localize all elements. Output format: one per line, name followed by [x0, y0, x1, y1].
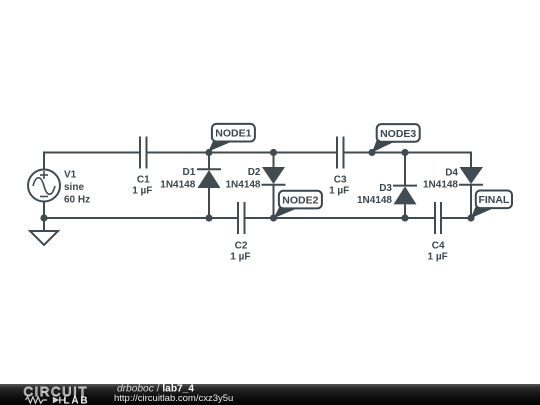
svg-text:1N4148: 1N4148: [160, 179, 195, 190]
junction dot V1/ground: [40, 214, 47, 221]
wire V1 bottom to ground: [43, 202, 45, 232]
junction dot D1 top (NODE1): [205, 149, 212, 156]
svg-text:C4: C4: [432, 240, 445, 251]
svg-text:60 Hz: 60 Hz: [64, 194, 90, 205]
junction dot D2 top: [270, 149, 277, 156]
footer text: author / title: [117, 383, 194, 394]
node FINAL label: [471, 191, 512, 219]
junction dot D3 bottom: [401, 214, 408, 221]
junction dot NODE3 attach: [368, 149, 375, 156]
node NODE2 label: [274, 191, 322, 219]
wire bottom rail: V1 to C2 (ground net): [44, 217, 238, 219]
wire bottom rail: C2 to C4 (NODE2 net): [245, 217, 436, 219]
footer text: url: [114, 393, 233, 404]
svg-text:C2: C2: [235, 240, 248, 251]
svg-text:1N4148: 1N4148: [357, 195, 392, 206]
svg-text:D1: D1: [183, 167, 196, 178]
junction dot D2 bottom (NODE2): [270, 214, 277, 221]
svg-text:FINAL: FINAL: [478, 194, 509, 206]
svg-text:1 µF: 1 µF: [427, 251, 447, 262]
diode D2 1N4148: [225, 153, 285, 219]
junction dot D1 bottom: [205, 214, 212, 221]
svg-text:C1: C1: [137, 175, 150, 186]
svg-text:D3: D3: [379, 183, 392, 194]
svg-text:NODE3: NODE3: [380, 128, 416, 140]
svg-text:V1: V1: [64, 170, 77, 181]
diode D1 1N4148: [160, 153, 221, 219]
capacitor C2 1uF: [230, 202, 250, 262]
diode D4 1N4148: [423, 167, 483, 218]
svg-text:NODE1: NODE1: [215, 128, 251, 140]
junction dot FINAL: [467, 214, 474, 221]
CircuitLab logo: [24, 384, 90, 405]
svg-text:1 µF: 1 µF: [329, 186, 349, 197]
svg-text:1 µF: 1 µF: [132, 186, 152, 197]
capacitor C3 1uF: [329, 137, 349, 197]
svg-text:sine: sine: [64, 182, 84, 193]
voltage source V1: [28, 170, 90, 206]
svg-text:D4: D4: [445, 167, 458, 178]
wire top rail: C1 to C3 (NODE1 net): [147, 152, 338, 154]
wire bottom rail: C4 to FINAL node: [441, 217, 471, 219]
svg-text:http://circuitlab.com/cxz3y5u: http://circuitlab.com/cxz3y5u: [114, 393, 233, 404]
svg-text:D2: D2: [248, 167, 261, 178]
svg-text:NODE2: NODE2: [282, 195, 318, 207]
diode D3 1N4148: [357, 153, 417, 219]
junction dot D3 top: [401, 149, 408, 156]
svg-text:C3: C3: [334, 175, 347, 186]
svg-text:LAB: LAB: [64, 395, 90, 405]
wire top rail: C3 to D4 (NODE3 net): [344, 153, 472, 168]
capacitor C1 1uF: [132, 137, 152, 197]
ground: [30, 231, 58, 245]
capacitor C4 1uF: [427, 202, 447, 262]
svg-text:1 µF: 1 µF: [230, 251, 250, 262]
svg-text:1N4148: 1N4148: [423, 180, 458, 191]
svg-text:1N4148: 1N4148: [225, 179, 260, 190]
node NODE3 label: [372, 124, 420, 152]
footer bar: [0, 384, 540, 405]
wire top rail: V1 to C1: [44, 153, 140, 170]
node NODE1 label: [208, 124, 255, 152]
